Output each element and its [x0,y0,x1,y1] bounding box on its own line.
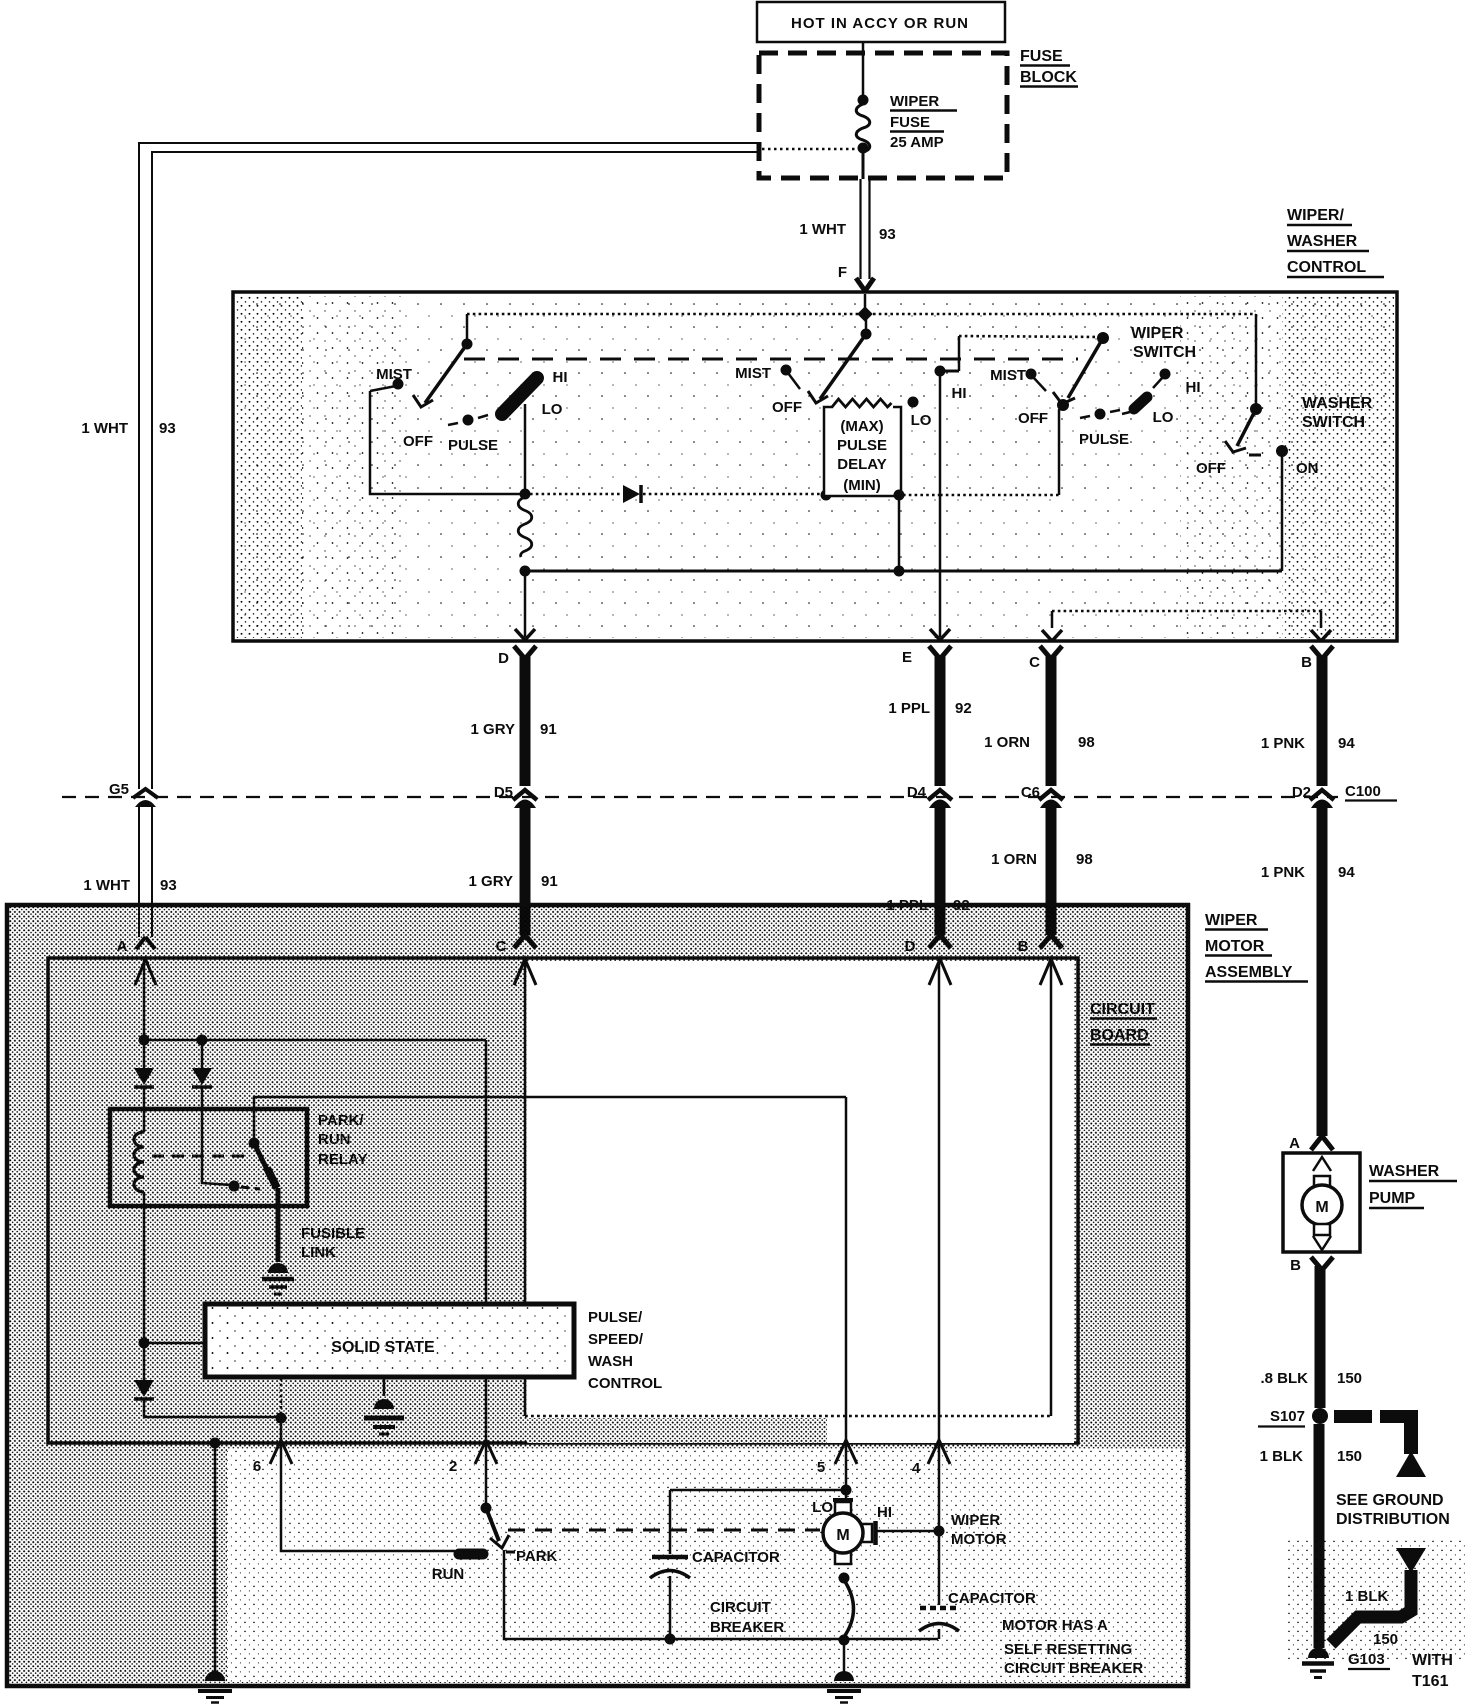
wiper fuse 25A element [856,104,870,152]
node cap1 bottom [665,1634,676,1645]
wire diode to pin6 [144,1416,280,1419]
svg-text:91: 91 [540,721,557,738]
svg-text:HI: HI [952,385,967,402]
svg-text:LO: LO [911,412,932,429]
svg-text:MOTOR HAS A: MOTOR HAS A [1002,1617,1108,1634]
relay coil [134,1088,144,1343]
svg-text:150: 150 [1337,1370,1362,1387]
contact SW3 OFF [1057,399,1069,411]
svg-text:(MAX): (MAX) [840,418,883,435]
wire link C to B dotted [1052,611,1321,628]
svg-text:1 ORN: 1 ORN [984,734,1030,751]
solid state box [205,1304,574,1377]
svg-text:CONTROL: CONTROL [1287,259,1366,276]
park-run switch pivot [481,1503,492,1514]
wire pin6 to park-run switch [281,1418,455,1551]
svg-text:LINK: LINK [301,1244,336,1261]
svg-text:1 GRY: 1 GRY [471,721,515,738]
svg-text:PULSE: PULSE [1079,431,1129,448]
label WIPER SWITCH [1131,325,1196,361]
wire double drop fuse block to F [861,179,870,279]
washer switch off-on dash [1249,454,1261,457]
connector washer B fork [1311,1257,1333,1270]
node fuse bottom [858,143,869,154]
wire pin2 drop upper [485,1040,488,1304]
svg-text:1 BLK: 1 BLK [1345,1588,1389,1605]
relay contact feed [202,1088,231,1185]
wire E purple thick upper [928,646,952,800]
label S107 [1258,1408,1305,1427]
connector G5 halves [133,789,158,807]
node sw1 out [520,489,531,500]
label PARK/RUN RELAY [318,1112,367,1168]
connector pin D chevron [515,629,535,640]
connector pin B chevron down [1311,630,1331,641]
hot feed box [757,2,1005,42]
svg-text:PARK: PARK [516,1548,558,1565]
node pin4 HI tap [934,1526,945,1537]
wire MIST leg down sw1 [370,391,527,494]
svg-text:1 PPL: 1 PPL [888,700,930,717]
svg-text:98: 98 [1076,851,1093,868]
svg-text:D5: D5 [494,784,513,801]
wire relay armature to pin5 bus [254,1097,846,1143]
svg-text:4: 4 [912,1460,921,1477]
svg-text:PULSE: PULSE [448,437,498,454]
mechanical dash link to motor [508,1529,820,1532]
connector washer A fork [1311,1136,1333,1150]
svg-text:PUMP: PUMP [1369,1190,1416,1207]
svg-text:93: 93 [160,877,177,894]
svg-text:MIST: MIST [735,365,771,382]
wire dotted diode to delay pot [643,493,824,496]
label FUSE BLOCK [1020,48,1078,87]
contact SW3 HI [1160,369,1171,380]
wire motor ground drop [843,1640,846,1674]
resistor sw1 leg [518,497,532,557]
svg-text:A: A [117,938,128,955]
wire cap1 to pin5 line [670,1489,846,1492]
svg-text:1 ORN: 1 ORN [991,851,1037,868]
label WIPER MOTOR ASSEMBLY [1205,912,1308,982]
park-run relay box [110,1109,307,1206]
svg-text:94: 94 [1338,735,1355,752]
connector pin E chevron [930,629,950,640]
wire dotted pot-right bus to SW3 off leg [940,494,1059,497]
wire washer feed pink thick lower [1311,800,1333,1137]
ground solid state [364,1377,404,1434]
wire dotted solid state to pin6 [280,1378,283,1414]
svg-text:SOLID STATE: SOLID STATE [331,1339,435,1356]
label PULSE/SPEED/WASH CONTROL [588,1309,662,1392]
wire E leg down [939,371,942,637]
svg-text:G103: G103 [1348,1651,1385,1668]
svg-text:PULSE: PULSE [837,437,887,454]
svg-text:LO: LO [812,1499,833,1516]
connector B fork into board [1040,935,1062,985]
svg-text:WASHER: WASHER [1369,1163,1440,1180]
svg-text:ASSEMBLY: ASSEMBLY [1205,964,1293,981]
contact SW1 PULSE [448,415,488,426]
node pin5 cap tap [841,1485,852,1496]
svg-text:(MIN): (MIN) [843,477,881,494]
splice S107 [1312,1408,1328,1424]
ground wiper motor [827,1671,861,1703]
switch SW3 lever [1053,338,1103,404]
speckle patch T161 [1288,1540,1468,1662]
svg-text:MIST: MIST [376,366,412,383]
svg-text:RUN: RUN [432,1566,465,1583]
label WITH T161 [1412,1652,1453,1690]
svg-text:D: D [905,938,916,955]
svg-text:C: C [496,938,507,955]
node motor ground tap [839,1635,850,1646]
svg-text:WASHER: WASHER [1287,233,1358,250]
contact SW2 LO [908,397,919,408]
svg-text:25 AMP: 25 AMP [890,134,944,151]
wire dotted inside fuse block [762,148,858,151]
connector pin 6 chevron [270,1440,292,1464]
diode CR1 [623,485,641,503]
svg-text:CIRCUIT BREAKER: CIRCUIT BREAKER [1004,1660,1143,1677]
svg-text:HI: HI [1186,379,1201,396]
wire pot right leg down [898,495,901,571]
svg-text:DELAY: DELAY [837,456,886,473]
wire 1 WHT 93 double run from fuse block to left and down [139,143,758,789]
ground fusible link [262,1263,294,1294]
wire dotted riser to SW3 pivot [959,336,1101,337]
wire D leg inside board to motor [938,961,941,1605]
switch SW1 pivot [462,339,473,350]
switch SW1 riser [466,314,469,344]
svg-text:1 BLK: 1 BLK [1260,1448,1304,1465]
svg-text:WIPER: WIPER [890,93,939,110]
node delay pot right [894,490,905,501]
svg-text:WITH: WITH [1412,1652,1453,1669]
contact SW3 PULSE [1080,409,1120,420]
svg-text:150: 150 [1373,1631,1398,1648]
off-page triangle see ground distribution [1396,1451,1426,1477]
label MOTOR HAS A SELF RESETTING CIRCUIT BREAKER [1002,1617,1143,1677]
svg-text:B: B [1018,938,1029,955]
svg-text:SWITCH: SWITCH [1133,344,1196,361]
wire C leg inside board lower [524,1377,527,1416]
svg-text:WASH: WASH [588,1353,633,1370]
svg-text:SWITCH: SWITCH [1302,414,1365,431]
wire dotted board bottom bus [525,1415,1051,1418]
wire washer ground thick [1315,1266,1326,1408]
label C100 [1345,783,1397,801]
svg-text:WIPER: WIPER [1131,325,1184,342]
wire fusible link [276,1188,281,1262]
svg-text:FUSE: FUSE [890,114,930,131]
wire hot box to fuse [862,42,865,99]
relay contact dashes [241,1187,260,1189]
svg-text:S107: S107 [1270,1408,1305,1425]
off-page triangle with T161 [1396,1548,1426,1573]
connector A fork on motor box [135,937,156,985]
washer switch riser [1255,314,1258,409]
washer pump box [1283,1153,1360,1252]
washer switch pivot [1250,403,1262,415]
wire 1 WHT lower double run [139,806,152,937]
contact washer ON [1276,445,1288,457]
svg-text:1 PNK: 1 PNK [1261,735,1305,752]
wiper motor M [823,1500,876,1564]
svg-text:D: D [498,650,509,667]
svg-text:1 PNK: 1 PNK [1261,864,1305,881]
svg-text:G5: G5 [109,781,129,798]
svg-text:PARK/: PARK/ [318,1112,364,1129]
svg-text:MOTOR: MOTOR [1205,938,1265,955]
washer switch lever [1225,409,1256,452]
svg-text:BOARD: BOARD [1090,1027,1149,1044]
node diode2 branch [197,1035,208,1046]
diode CR4 [134,1343,154,1417]
node delay pot left [821,490,832,501]
wire T161 ground thick [1331,1570,1411,1644]
wire B orange thick lower [1040,800,1062,986]
svg-text:LO: LO [1153,409,1174,426]
label CIRCUIT BOARD [1090,1001,1157,1045]
ground G103 [1302,1648,1334,1678]
svg-text:OFF: OFF [1018,410,1048,427]
ground board bottom-left [198,1671,232,1703]
svg-text:WIPER: WIPER [951,1512,1000,1529]
node D out [520,566,531,577]
wire A into board [143,958,146,1040]
svg-text:M: M [836,1527,849,1544]
svg-text:B: B [1290,1257,1301,1274]
node F junction [857,306,873,322]
svg-text:D2: D2 [1292,784,1311,801]
svg-text:CONTROL: CONTROL [588,1375,662,1392]
wire SW3 OFF leg [1059,407,1062,495]
connector pin 2 chevron [475,1440,497,1464]
svg-text:SPEED/: SPEED/ [588,1331,644,1348]
connector D fork into board [929,935,951,985]
node solid state feed [139,1338,150,1349]
svg-text:C: C [1029,654,1040,671]
fuse block dashed box [759,53,1007,178]
svg-text:WIPER/: WIPER/ [1287,207,1344,224]
wire D drop [524,571,527,637]
svg-text:150: 150 [1337,1448,1362,1465]
wire motor HI to pin4 leg [874,1530,939,1533]
svg-text:CIRCUIT: CIRCUIT [710,1599,771,1616]
relay armature [249,1138,278,1189]
svg-text:D4: D4 [907,784,927,801]
svg-text:F: F [838,264,847,281]
svg-text:1 WHT: 1 WHT [81,420,128,437]
node ground bus [210,1438,221,1449]
wire dotted pot to E leg [903,494,940,497]
wire washer ground lower thick [1314,1424,1325,1648]
relay coil dashed link [152,1155,246,1158]
svg-text:93: 93 [159,420,176,437]
wire pin5 bus drop to motor [845,1097,848,1502]
wire D gray thick upper [513,646,537,800]
svg-text:C6: C6 [1021,784,1040,801]
contact SW3 LO bar [1122,397,1147,414]
svg-text:WASHER: WASHER [1302,395,1373,412]
svg-text:CAPACITOR: CAPACITOR [692,1549,780,1566]
switch SW3 pivot [1097,332,1109,344]
wire C leg inside board upper [524,961,527,1304]
svg-text:HI: HI [877,1504,892,1521]
svg-text:OFF: OFF [772,399,802,416]
park-run switch lever [486,1508,509,1548]
svg-text:RELAY: RELAY [318,1151,367,1168]
wire A branch bus [144,1039,486,1042]
svg-text:1 WHT: 1 WHT [799,221,846,238]
node A branch [139,1035,150,1046]
switch SW1 lever [413,344,467,407]
wire LO leg down sw1 [524,404,527,494]
svg-text:DISTRIBUTION: DISTRIBUTION [1336,1511,1450,1528]
svg-text:OFF: OFF [1196,460,1226,477]
switch SW2 MIST contact [781,365,792,376]
svg-text:5: 5 [817,1459,825,1476]
label FUSIBLE LINK [301,1225,365,1261]
svg-text:HI: HI [553,369,568,386]
circuit board box [48,958,1078,1443]
contact SW2 HI [935,366,946,377]
node pot leg joins bus [894,566,905,577]
svg-text:BLOCK: BLOCK [1020,69,1077,86]
label SEE GROUND DISTRIBUTION [1336,1492,1450,1528]
svg-text:1 GRY: 1 GRY [469,873,513,890]
svg-text:PULSE/: PULSE/ [588,1309,643,1326]
svg-text:E: E [902,649,912,666]
svg-text:ON: ON [1296,460,1319,477]
svg-text:CIRCUIT: CIRCUIT [1090,1001,1155,1018]
svg-text:B: B [1301,654,1312,671]
switch SW2 pivot [861,329,872,340]
connector pin 4 chevron [928,1440,950,1464]
contact RUN bar [459,1549,483,1560]
svg-text:93: 93 [879,226,896,243]
svg-text:1 WHT: 1 WHT [83,877,130,894]
wire park leg down [504,1550,938,1639]
capacitor C2 [919,1608,959,1639]
label CIRCUIT BREAKER [710,1599,784,1636]
svg-text:91: 91 [541,873,558,890]
capacitor C1 [650,1490,690,1639]
wire common bus y571 [525,570,1282,573]
wiper-washer control module box [233,292,1397,641]
svg-text:1 PPL: 1 PPL [886,897,928,914]
connector pin 5 chevron [835,1440,857,1464]
svg-text:RUN: RUN [318,1131,351,1148]
svg-text:MIST: MIST [990,367,1026,384]
svg-text:SEE GROUND: SEE GROUND [1336,1492,1444,1509]
wire feed bus dotted from F [864,294,867,313]
wire HI stub to riser [940,370,959,373]
contact PARK dash [506,1551,515,1554]
svg-text:.8 BLK: .8 BLK [1260,1370,1308,1387]
svg-text:HOT IN ACCY OR RUN: HOT IN ACCY OR RUN [791,15,969,32]
label WIPER/WASHER CONTROL [1287,207,1384,277]
wire B pink thick upper [1310,646,1334,800]
label WIPER FUSE 25 AMP [890,93,957,151]
svg-text:FUSE: FUSE [1020,48,1063,65]
svg-text:C100: C100 [1345,783,1381,800]
node pin6 [276,1413,287,1424]
svg-text:T161: T161 [1412,1673,1449,1690]
switch SW2 lever [808,334,866,403]
svg-text:FUSIBLE: FUSIBLE [301,1225,365,1242]
wire pin2 drop lower [485,1377,488,1508]
wire to solid state [144,1342,205,1345]
label G103 [1348,1651,1390,1669]
node fuse top [858,95,869,106]
svg-text:94: 94 [1338,864,1355,881]
wiper motor assembly box [7,905,1188,1686]
connector F fork [856,278,874,291]
contact SW1 LO-HI bar [502,378,537,414]
svg-text:WIPER: WIPER [1205,912,1258,929]
relay contact node [229,1181,240,1192]
label WASHER PUMP [1369,1163,1457,1208]
svg-text:A: A [1289,1135,1300,1152]
label WIPER MOTOR [951,1512,1007,1548]
connector C fork into board [514,935,536,985]
wire B leg inside board [1050,961,1053,1416]
wire washer ON leg down [1281,451,1284,571]
wire dotted to diode [530,493,622,496]
svg-text:OFF: OFF [403,433,433,450]
wire board ground drop [214,1443,217,1676]
svg-text:98: 98 [1078,734,1095,751]
wire D purple thick lower [929,800,951,986]
diode CR3 [192,1040,212,1087]
svg-text:2: 2 [449,1458,457,1475]
contact SW3 MIST [1026,369,1037,380]
connector pin C chevron down [1042,630,1062,641]
label WASHER SWITCH [1302,395,1373,431]
pulse delay rheostat box [824,398,901,496]
svg-text:MOTOR: MOTOR [951,1531,1007,1548]
harness connector line C100 dashed [62,796,1338,798]
diode CR2 [134,1040,154,1087]
wire C orange thick upper [1039,646,1063,800]
wire C gray thick lower [514,800,536,986]
svg-text:SELF RESETTING: SELF RESETTING [1004,1641,1132,1658]
wire S107 branch dashed thick [1334,1410,1418,1454]
switch coupling dashed link [464,358,1078,361]
svg-text:6: 6 [253,1458,261,1475]
svg-text:92: 92 [955,700,972,717]
circuit breaker curve [844,1580,854,1637]
svg-text:92: 92 [953,897,970,914]
svg-text:BREAKER: BREAKER [710,1619,784,1636]
node motor bottom [839,1573,850,1584]
svg-text:LO: LO [542,401,563,418]
svg-text:CAPACITOR: CAPACITOR [948,1590,1036,1607]
svg-text:M: M [1315,1199,1328,1216]
wire fuse to block edge [862,150,865,179]
contact SW1 MIST [393,379,404,390]
